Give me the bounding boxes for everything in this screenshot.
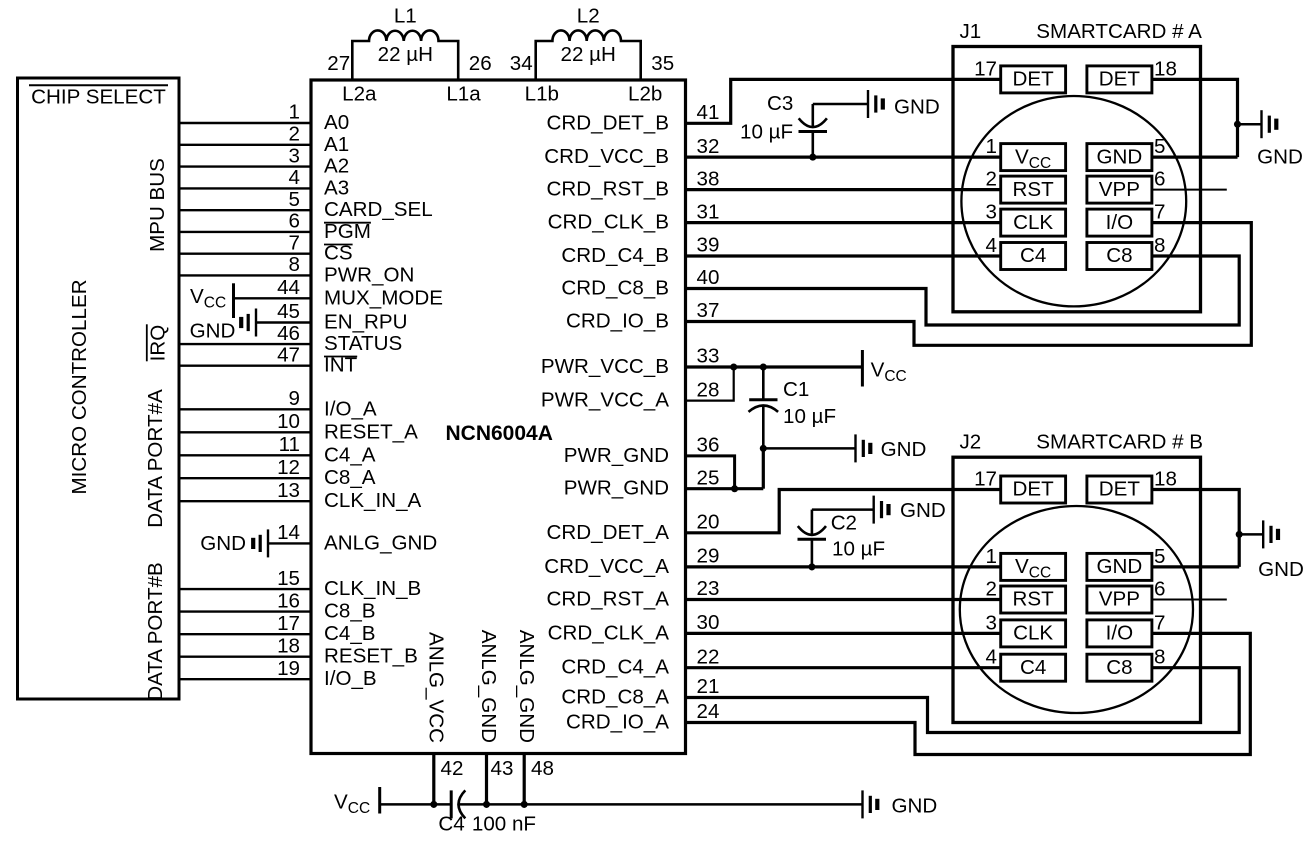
wire J2 GND pin 5 [1152,565,1239,568]
svg-text:6: 6 [1154,168,1165,191]
svg-text:I/O: I/O [1106,622,1133,645]
junction C1/PWR_VCC [760,363,767,370]
J1 pin 8 C8 contact box [1087,243,1152,270]
J1 pin 6 VPP contact box [1087,176,1152,203]
svg-text:L1b: L1b [525,82,559,105]
wire pin 5 (CARD_SEL) from microcontroller [179,209,311,211]
ground symbol (J2) [1262,520,1264,548]
svg-text:6: 6 [1154,578,1165,601]
svg-text:C4_A: C4_A [324,443,376,466]
J2 pin 18 DET contact box [1087,476,1152,503]
wire pin 42 ANLG_VCC [432,754,435,805]
wire pin 13 (CLK_IN_A) from microcontroller [179,500,311,502]
svg-text:CRD_C4_B: CRD_C4_B [561,244,669,267]
svg-text:PWR_GND: PWR_GND [564,477,669,500]
junction J2 GND [1236,531,1243,538]
wire pin 46 (STATUS) from microcontroller [179,343,311,345]
svg-text:41: 41 [697,101,720,124]
microcontroller U2 box [18,78,180,699]
inductor L2 [536,30,641,80]
svg-text:18: 18 [1154,57,1177,80]
svg-text:PWR_VCC_A: PWR_VCC_A [541,389,669,412]
svg-text:CARD_SEL: CARD_SEL [324,198,433,221]
J1 pin 5 GND contact box [1087,144,1152,171]
junction pins 28/33 [730,363,737,370]
wire pin 1 (A0) from microcontroller [179,122,311,124]
svg-text:J1: J1 [960,20,982,43]
wire pin 16 (C8_B) from microcontroller [179,610,311,612]
svg-text:3: 3 [289,144,300,167]
svg-text:CRD_VCC_B: CRD_VCC_B [544,145,669,168]
wire pin 17 (C4_B) from microcontroller [179,633,311,635]
svg-text:22: 22 [697,645,720,668]
inductor L1 [352,30,458,80]
junction pin 43 [483,801,490,808]
svg-text:DET: DET [1013,478,1055,501]
wire pin 19 (I/O_B) from microcontroller [179,678,311,680]
wire pin 36 PWR_GND tie to pin 25 [685,456,735,489]
svg-text:STATUS: STATUS [324,332,402,355]
svg-text:DATA PORT#B: DATA PORT#B [144,562,167,700]
svg-text:32: 32 [697,135,720,158]
svg-text:16: 16 [277,589,300,612]
capacitor C3 10uF [811,104,814,127]
svg-text:CRD_RST_B: CRD_RST_B [547,178,669,201]
svg-text:10: 10 [277,410,300,433]
svg-text:23: 23 [697,577,720,600]
svg-text:100 nF: 100 nF [472,813,536,836]
svg-text:4: 4 [289,166,300,189]
J2 pin 1 VCC contact box [1001,553,1066,580]
svg-text:7: 7 [289,231,300,254]
wire pin 20 CRD_DET_A to J2 DET pin 17 [685,490,1001,533]
svg-text:MICRO CONTROLLER: MICRO CONTROLLER [68,279,91,494]
svg-text:A3: A3 [324,176,349,199]
wire C3 to GND [813,103,868,106]
wire pin 40 CRD_C8_B to J1 C8 pin 8 [685,256,1239,325]
svg-text:6: 6 [289,210,300,233]
svg-text:A2: A2 [324,155,349,178]
svg-text:CLK: CLK [1013,622,1053,645]
svg-text:48: 48 [531,757,554,780]
svg-text:GND: GND [892,795,938,818]
svg-text:I/O_A: I/O_A [324,397,377,420]
svg-text:13: 13 [277,479,300,502]
J2 pin 2 RST contact box [1001,586,1066,613]
connector J1 outer box [953,47,1201,312]
wire pin 3 (A2) from microcontroller [179,165,311,167]
junction J1 GND [1234,121,1241,128]
svg-text:20: 20 [697,511,720,534]
svg-text:C4: C4 [1020,656,1046,679]
svg-text:ANLG_VCC: ANLG_VCC [425,632,448,743]
svg-text:39: 39 [697,234,720,257]
svg-text:2: 2 [289,123,300,146]
svg-text:A1: A1 [324,133,349,156]
svg-text:RST: RST [1013,588,1055,611]
junction pin 42 [430,801,437,808]
svg-text:5: 5 [1154,135,1165,158]
capacitor C4 100nF [450,790,453,818]
wire pin 29 CRD_VCC_A to J2 VCC pin 1 [685,565,1001,568]
svg-text:C8: C8 [1106,656,1132,679]
svg-text:L2a: L2a [342,82,377,105]
svg-text:9: 9 [289,387,300,410]
wire J1 DET pin 18 to GND [1152,79,1238,157]
ground symbol (J1) [1260,110,1262,138]
wire PWR_GND riser to GND rail [762,448,765,488]
svg-text:IRQ: IRQ [147,325,170,362]
junction C1/GND rail [760,445,767,452]
IC U1 NCN6004A box [311,80,686,754]
svg-text:CRD_CLK_B: CRD_CLK_B [548,211,669,234]
svg-text:CLK_IN_B: CLK_IN_B [324,577,421,600]
svg-text:CRD_DET_B: CRD_DET_B [547,111,669,134]
wire pin 11 (C4_A) from microcontroller [179,454,311,456]
J1 pin 1 VCC contact box [1001,144,1066,171]
wire pin 15 (CLK_IN_B) from microcontroller [179,588,311,590]
wire J2 VPP pin 6 stub [1152,599,1227,601]
capacitor C1 10uF [762,367,765,400]
J1 pin 7 I/O contact box [1087,209,1152,236]
wire pin 10 (RESET_A) from microcontroller [179,431,311,433]
svg-text:38: 38 [697,167,720,190]
svg-text:L1a: L1a [446,82,481,105]
svg-text:CLK_IN_A: CLK_IN_A [324,489,422,512]
svg-text:C8: C8 [1106,244,1132,267]
svg-text:CRD_RST_A: CRD_RST_A [547,588,670,611]
ground symbol (C3) [867,90,869,118]
J2 card contact circle [960,506,1193,713]
svg-text:C8_A: C8_A [324,466,376,489]
svg-text:17: 17 [974,468,997,491]
J1 pin 3 CLK contact box [1001,209,1066,236]
wire VCC to C4 [380,803,452,806]
svg-text:4: 4 [986,234,997,257]
wire pin 38 CRD_RST_B to J1 RST pin 2 [685,188,1001,191]
svg-text:CRD_IO_B: CRD_IO_B [566,310,669,333]
svg-text:8: 8 [289,253,300,276]
svg-text:I/O: I/O [1106,211,1133,234]
J2 pin 17 DET contact box [1001,476,1066,503]
wire pin 6 (PGM) from microcontroller [179,231,311,233]
svg-text:29: 29 [697,545,720,568]
svg-text:10 µF: 10 µF [832,538,885,561]
svg-text:GND: GND [1257,146,1303,169]
svg-text:PWR_GND: PWR_GND [564,444,669,467]
svg-text:47: 47 [277,343,300,366]
svg-text:L2b: L2b [628,82,662,105]
svg-text:NCN6004A: NCN6004A [446,422,553,445]
wire pin 30 CRD_CLK_A to J2 CLK pin 3 [685,632,1001,635]
ground symbol at pin 45 [255,309,257,337]
svg-text:33: 33 [697,345,720,368]
svg-text:42: 42 [441,757,464,780]
svg-text:C4: C4 [1020,244,1046,267]
wire pin 22 CRD_C4_A to J2 C4 pin 4 [685,666,1001,669]
svg-text:22 µH: 22 µH [561,43,616,66]
svg-text:43: 43 [491,757,514,780]
svg-text:10 µF: 10 µF [740,121,793,144]
svg-text:GND: GND [200,532,246,555]
svg-text:RST: RST [1013,178,1055,201]
wire pin 21 CRD_C8_A to J2 C8 pin 8 [685,668,1239,733]
svg-text:35: 35 [651,52,674,75]
ground symbol (PWR_GND) [854,434,856,462]
svg-text:DET: DET [1099,478,1141,501]
svg-text:SMARTCARD # B: SMARTCARD # B [1036,431,1203,454]
svg-text:C4_B: C4_B [324,622,376,645]
VCC symbol at pin 44 [232,283,235,318]
svg-text:22 µH: 22 µH [378,43,433,66]
svg-text:36: 36 [697,434,720,457]
wire pin 32 CRD_VCC_B to J1 VCC pin 1 [685,156,1001,159]
svg-text:CRD_IO_A: CRD_IO_A [566,711,669,734]
svg-text:ANLG_GND: ANLG_GND [515,630,538,743]
svg-text:8: 8 [1154,234,1165,257]
wire pin 9 (I/O_A) from microcontroller [179,408,311,410]
svg-text:5: 5 [1154,545,1165,568]
ground symbol at pin 14 [267,529,269,557]
wire pin 23 CRD_RST_A to J2 RST pin 2 [685,598,1001,601]
svg-text:DATA PORT#A: DATA PORT#A [144,389,167,528]
svg-text:10 µF: 10 µF [783,405,836,428]
svg-text:17: 17 [277,612,300,635]
wire pin 8 (PWR_ON) from microcontroller [179,274,311,276]
wire pin 18 (RESET_B) from microcontroller [179,656,311,658]
junction pin 48 [521,801,528,808]
svg-text:45: 45 [277,300,300,323]
wire pin 39 CRD_C4_B to J1 C4 pin 4 [685,254,1001,257]
svg-text:CHIP SELECT: CHIP SELECT [31,86,166,109]
wire pin 33 PWR_VCC_B to VCC [685,365,862,368]
J2 pin 4 C4 contact box [1001,654,1066,681]
wire pin 37 CRD_IO_B to J1 I/O pin 7 [685,223,1251,346]
svg-text:CRD_VCC_A: CRD_VCC_A [544,555,669,578]
J2 pin 7 I/O contact box [1087,620,1152,647]
svg-text:2: 2 [986,168,997,191]
svg-text:I/O_B: I/O_B [324,667,377,690]
svg-text:1: 1 [986,135,997,158]
svg-text:12: 12 [277,456,300,479]
svg-text:25: 25 [697,466,720,489]
svg-text:CLK: CLK [1013,211,1053,234]
J2 pin 3 CLK contact box [1001,620,1066,647]
svg-text:17: 17 [974,57,997,80]
svg-text:ANLG_GND: ANLG_GND [324,531,437,554]
J1 pin 4 C4 contact box [1001,243,1066,270]
wire pin 2 (A1) from microcontroller [179,144,311,146]
svg-text:1: 1 [986,545,997,568]
wire C2 to GND [812,508,874,511]
svg-text:GND: GND [1097,145,1143,168]
svg-text:GND: GND [1097,555,1143,578]
ground symbol (bottom) [861,790,863,818]
J1 pin 2 RST contact box [1001,176,1066,203]
svg-text:GND: GND [190,320,236,343]
svg-text:C3: C3 [767,92,793,115]
wire pin 28 PWR_VCC_A tie to pin 33 [685,367,734,401]
svg-text:40: 40 [697,266,720,289]
svg-text:GND: GND [894,96,940,119]
svg-text:CRD_DET_A: CRD_DET_A [547,521,670,544]
svg-text:PWR_ON: PWR_ON [324,263,414,286]
VCC symbol (PWR_VCC) [861,350,864,387]
svg-text:C4: C4 [438,813,464,836]
svg-text:19: 19 [277,657,300,680]
svg-text:27: 27 [327,52,350,75]
svg-text:SMARTCARD # A: SMARTCARD # A [1036,20,1202,43]
svg-text:GND: GND [1258,558,1304,581]
wire pin 31 CRD_CLK_B to J1 CLK pin 3 [685,221,1001,224]
wire pin 24 CRD_IO_A to J2 I/O pin 7 [685,633,1250,754]
svg-text:C8_B: C8_B [324,600,376,623]
J2 pin 5 GND contact box [1087,553,1152,580]
svg-text:4: 4 [986,646,997,669]
svg-text:MPU BUS: MPU BUS [146,158,169,252]
svg-text:21: 21 [697,675,720,698]
svg-text:PWR_VCC_B: PWR_VCC_B [541,355,669,378]
svg-text:26: 26 [469,52,492,75]
wire J2 GND stub [1239,533,1263,536]
svg-text:ANLG_GND: ANLG_GND [477,630,500,743]
J1 pin 18 DET contact box [1087,66,1152,93]
svg-text:DET: DET [1099,68,1141,91]
wire pin 48 ANLG_GND [523,754,526,805]
wire pin 44 (MUX_MODE) from VCC [234,297,312,299]
svg-text:EN_RPU: EN_RPU [324,311,408,334]
svg-text:C2: C2 [831,512,857,535]
svg-text:7: 7 [1154,201,1165,224]
svg-text:L1: L1 [394,5,417,28]
connector J2 outer box [953,457,1201,722]
wire pin 4 (A3) from microcontroller [179,187,311,189]
J2 pin 8 C8 contact box [1087,654,1152,681]
svg-text:1: 1 [289,101,300,124]
svg-text:J2: J2 [960,431,982,454]
svg-text:MUX_MODE: MUX_MODE [324,286,443,309]
wire pin 12 (C8_A) from microcontroller [179,477,311,479]
svg-text:CRD_C8_B: CRD_C8_B [561,277,669,300]
wire pin 43 ANLG_GND [485,754,488,805]
svg-text:2: 2 [986,578,997,601]
svg-text:8: 8 [1154,646,1165,669]
wire GND rail [763,447,855,450]
svg-text:RESET_A: RESET_A [324,420,418,443]
wire C4 to GND [459,803,863,806]
svg-text:34: 34 [510,52,533,75]
svg-text:GND: GND [900,499,946,522]
svg-text:14: 14 [277,521,300,544]
svg-text:5: 5 [289,188,300,211]
wire pin 7 (CS) from microcontroller [179,252,311,254]
svg-text:28: 28 [697,378,720,401]
VCC symbol (bottom) [378,787,381,814]
svg-text:3: 3 [986,201,997,224]
wire J1 GND stub [1238,123,1262,126]
wire pin 47 (INT) from microcontroller [179,365,311,367]
wire pin 45 (EN_RPU) from GND [256,321,311,323]
ground symbol (C2) [873,496,875,524]
svg-text:15: 15 [277,567,300,590]
wire pin 25 PWR_GND to GND [685,487,763,490]
svg-text:CRD_CLK_A: CRD_CLK_A [548,621,670,644]
wire J1 GND pin 5 [1152,156,1238,159]
svg-text:31: 31 [697,200,720,223]
svg-text:30: 30 [697,611,720,634]
svg-text:44: 44 [277,276,300,299]
svg-text:46: 46 [277,322,300,345]
svg-text:18: 18 [277,634,300,657]
wire J1 VPP pin 6 stub [1152,189,1227,191]
svg-text:CRD_C8_A: CRD_C8_A [561,686,669,709]
svg-text:A0: A0 [324,111,349,134]
junction C3/CRD_VCC_B [809,154,816,161]
svg-text:18: 18 [1154,468,1177,491]
svg-text:RESET_B: RESET_B [324,645,418,668]
wire pin 14 (ANLG_GND) from GND [268,542,311,544]
capacitor C2 10uF [811,510,814,535]
J2 pin 6 VPP contact box [1087,586,1152,613]
svg-text:DET: DET [1013,68,1055,91]
svg-text:C1: C1 [783,378,809,401]
svg-text:11: 11 [279,433,300,456]
svg-text:GND: GND [881,438,927,461]
svg-text:VPP: VPP [1099,588,1140,611]
wire pin 41 CRD_DET_B to J1 DET pin 17 [685,79,1001,123]
junction C2/CRD_VCC_A [808,563,815,570]
svg-text:3: 3 [986,611,997,634]
svg-text:L2: L2 [577,5,600,28]
svg-text:7: 7 [1154,611,1165,634]
svg-text:CRD_C4_A: CRD_C4_A [561,656,669,679]
svg-text:24: 24 [697,700,720,723]
svg-text:VPP: VPP [1099,178,1140,201]
junction pins 36/25 [731,485,738,492]
J1 pin 17 DET contact box [1001,66,1066,93]
J1 card contact circle [961,96,1186,306]
wire J2 DET pin 18 to GND [1152,490,1239,567]
svg-text:37: 37 [697,299,720,322]
